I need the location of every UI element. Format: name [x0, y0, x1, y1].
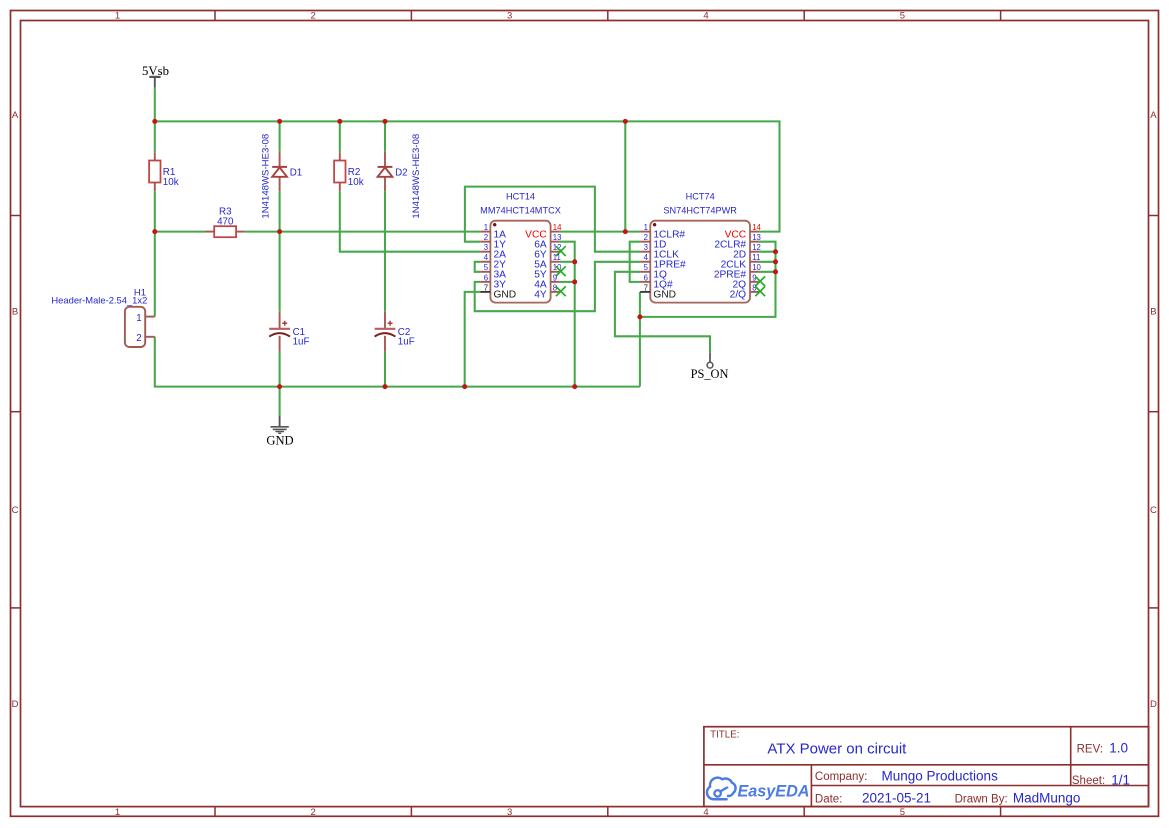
svg-text:MadMungo: MadMungo: [1013, 791, 1081, 806]
svg-text:D2: D2: [395, 168, 408, 179]
svg-text:10k: 10k: [163, 177, 179, 188]
wire D1/C1 column: [279, 121, 281, 151]
svg-text:GND: GND: [266, 433, 293, 447]
svg-text:3: 3: [507, 10, 512, 21]
wire HCT74 1Q to PS_ON: [615, 272, 710, 353]
wire HCT14 6A to ground column: [559, 242, 574, 387]
svg-text:6: 6: [644, 273, 648, 282]
svg-text:5: 5: [484, 263, 489, 272]
svg-text:Mungo Productions: Mungo Productions: [882, 768, 999, 783]
svg-text:Sheet:: Sheet:: [1072, 775, 1105, 787]
svg-text:HCT74: HCT74: [686, 192, 715, 202]
wire mid rail to HCT14 1A: [155, 231, 205, 233]
svg-text:11: 11: [553, 253, 561, 262]
wire HCT14 3Y to HCT74 1PRE#: [475, 262, 640, 311]
wire R2 column to HCT14 2A: [339, 121, 341, 152]
op-amp U1 HCT14: [480, 192, 566, 303]
svg-text:SN74HCT74PWR: SN74HCT74PWR: [663, 205, 737, 215]
capacitor C2: [375, 312, 415, 352]
svg-text:10k: 10k: [348, 177, 364, 188]
svg-text:3: 3: [644, 243, 648, 252]
svg-text:B: B: [1150, 307, 1156, 318]
svg-text:A: A: [1150, 110, 1157, 121]
svg-text:MM74HCT14MTCX: MM74HCT14MTCX: [480, 205, 561, 215]
svg-text:A: A: [12, 110, 19, 121]
wire R1 column 5Vsb to H1 pin1: [154, 121, 156, 152]
svg-text:1/1: 1/1: [1111, 772, 1130, 787]
resistor R1: [149, 152, 179, 191]
svg-text:EasyEDA: EasyEDA: [738, 783, 810, 801]
svg-text:12: 12: [752, 243, 761, 252]
capacitor C1: [269, 312, 309, 352]
svg-text:1.0: 1.0: [1109, 741, 1128, 756]
wire HCT74 2CLK stub join: [759, 261, 776, 263]
svg-text:C: C: [12, 505, 19, 516]
svg-text:1N4148WS-HE3-08: 1N4148WS-HE3-08: [411, 134, 422, 219]
svg-text:2: 2: [644, 233, 648, 242]
wire D2/C2 column: [384, 121, 386, 151]
svg-text:5Vsb: 5Vsb: [142, 64, 169, 78]
svg-text:C: C: [1150, 505, 1157, 516]
svg-text:7: 7: [644, 283, 648, 292]
wire 5Vsb to top rail: [154, 87, 156, 122]
junction dots: [152, 119, 157, 124]
svg-text:B: B: [12, 307, 18, 318]
svg-text:REV:: REV:: [1077, 743, 1103, 755]
wire HCT74 2CLR# ladder to GND: [640, 242, 776, 317]
svg-text:14: 14: [752, 223, 761, 232]
op-amp U2 HCT74: [640, 192, 765, 303]
svg-text:1: 1: [115, 807, 120, 818]
svg-text:Header-Male-2.54_1x2: Header-Male-2.54_1x2: [51, 294, 147, 305]
svg-text:13: 13: [752, 233, 761, 242]
svg-text:2: 2: [311, 807, 316, 818]
svg-text:Drawn By:: Drawn By:: [955, 794, 1008, 806]
svg-text:2: 2: [484, 233, 488, 242]
svg-text:4: 4: [703, 10, 708, 21]
svg-text:Date:: Date:: [815, 793, 843, 805]
title block: [704, 727, 1149, 807]
svg-text:2: 2: [136, 333, 141, 344]
svg-text:D: D: [12, 699, 19, 710]
EasyEDA logo: [707, 778, 810, 801]
connector H1: [51, 288, 154, 347]
svg-text:3: 3: [484, 243, 488, 252]
svg-text:2021-05-21: 2021-05-21: [862, 791, 931, 806]
svg-text:Company:: Company:: [815, 771, 867, 783]
wire HCT74 2D stub join: [759, 251, 776, 253]
svg-text:1uF: 1uF: [293, 337, 310, 348]
svg-text:10: 10: [752, 263, 761, 272]
wire GND symbol drop: [279, 387, 281, 416]
svg-text:5: 5: [644, 263, 649, 272]
wire HCT14 5A stub join: [559, 261, 574, 263]
diode D1: [261, 134, 303, 219]
svg-text:D: D: [1150, 699, 1157, 710]
svg-text:1uF: 1uF: [398, 337, 415, 348]
power flag 5Vsb: [142, 64, 169, 87]
svg-text:1: 1: [644, 223, 648, 232]
svg-text:ATX Power on circuit: ATX Power on circuit: [767, 741, 907, 758]
wire HCT14 VCC to HCT74 1CLR#: [559, 231, 640, 233]
svg-text:4: 4: [484, 253, 489, 262]
wire top VCC rail: [155, 121, 780, 231]
svg-text:13: 13: [553, 233, 562, 242]
svg-text:9: 9: [553, 273, 557, 282]
svg-text:TITLE:: TITLE:: [710, 730, 739, 741]
svg-text:4Y: 4Y: [534, 290, 547, 301]
svg-text:4: 4: [644, 253, 649, 262]
wire HCT14 1Y to HCT74 1CLK: [465, 187, 640, 252]
svg-text:1N4148WS-HE3-08: 1N4148WS-HE3-08: [261, 134, 272, 219]
svg-text:D1: D1: [290, 168, 303, 179]
wire HCT74 1D to 1Q#: [630, 242, 640, 282]
wire VCC drop to mid rail: [624, 121, 626, 231]
wire HCT14 GND to bottom rail: [465, 292, 481, 387]
svg-text:HCT14: HCT14: [506, 192, 535, 202]
svg-text:GND: GND: [653, 290, 676, 301]
svg-text:6: 6: [484, 273, 488, 282]
svg-text:PS_ON: PS_ON: [691, 367, 729, 381]
svg-text:2/Q: 2/Q: [730, 290, 746, 301]
wire HCT74 2PRE# stub join: [759, 271, 776, 273]
wire HCT14 4A stub join: [559, 281, 574, 283]
resistor R2: [334, 152, 364, 191]
svg-text:470: 470: [217, 216, 234, 227]
svg-text:14: 14: [553, 223, 562, 232]
resistor R3: [205, 207, 245, 238]
svg-text:1: 1: [484, 223, 488, 232]
svg-text:5: 5: [900, 807, 905, 818]
svg-text:1: 1: [115, 10, 120, 21]
wire H1 pin2 to bottom rail: [155, 337, 640, 387]
svg-text:1: 1: [136, 313, 141, 324]
wire HCT14 2Y to 3A: [475, 262, 481, 272]
svg-text:7: 7: [484, 283, 488, 292]
wire HCT74 GND to bottom rail: [639, 292, 641, 387]
svg-text:4: 4: [703, 807, 708, 818]
net port PS_ON: [691, 353, 729, 381]
diode D2: [378, 134, 422, 219]
svg-text:2: 2: [311, 10, 316, 21]
svg-text:3: 3: [507, 807, 512, 818]
svg-text:5: 5: [900, 10, 905, 21]
svg-text:11: 11: [752, 253, 760, 262]
svg-text:GND: GND: [494, 290, 517, 301]
ground: [266, 416, 293, 448]
